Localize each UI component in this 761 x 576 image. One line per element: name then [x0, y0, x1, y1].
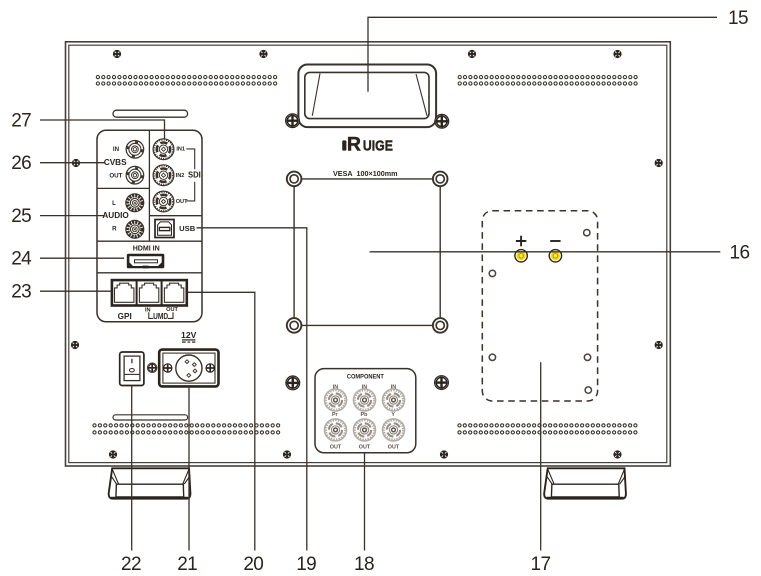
CVBS OUT RCA jack — [126, 166, 144, 184]
power switch rocker — [124, 356, 140, 381]
screw right-low — [655, 341, 663, 349]
component BNC IN 3 — [383, 389, 405, 411]
SDI IN2 BNC — [153, 165, 174, 186]
vent holes bottom-left — [93, 424, 280, 434]
vent holes top-left — [96, 76, 276, 86]
component BNC OUT 3 — [383, 419, 405, 441]
screw left-mid — [72, 159, 80, 167]
COMPONENT panel outline — [315, 369, 416, 453]
screw bottom Q — [440, 450, 448, 458]
screw bottom O — [109, 450, 117, 458]
handle recess left bevel — [312, 74, 320, 116]
svg-text:HDMI IN: HDMI IN — [133, 244, 160, 253]
svg-text:OUT: OUT — [176, 199, 188, 205]
callout 18 line — [364, 453, 366, 551]
XLR pin 1 — [185, 360, 189, 364]
12V XLR barrel — [176, 355, 202, 381]
AUDIO R RCA jack — [126, 220, 144, 238]
svg-text:R: R — [112, 226, 117, 233]
XLR pin 3 — [193, 369, 197, 373]
svg-text:USB: USB — [179, 224, 196, 233]
12V dc dashes — [182, 341, 186, 343]
callout 26 line — [40, 162, 105, 164]
RUIGE logo — [342, 134, 393, 156]
screw beside power switch — [147, 363, 157, 373]
svg-text:OUT: OUT — [330, 444, 342, 450]
VESA hole top-right — [433, 172, 448, 187]
XLR plate screw left — [164, 364, 172, 372]
svg-text:IN2: IN2 — [176, 173, 185, 179]
battery hole 4 — [584, 354, 590, 360]
12V underline — [182, 339, 195, 341]
svg-text:16: 16 — [730, 243, 750, 264]
vent holes top-right — [458, 76, 637, 86]
screw top C — [468, 50, 476, 58]
RJ45 divider 1 — [136, 281, 138, 305]
svg-text:OUT: OUT — [388, 444, 400, 450]
svg-text:Y: Y — [391, 412, 395, 418]
component BNC OUT 1 — [325, 419, 347, 441]
divider above HDMI — [98, 240, 202, 242]
battery hole 3 — [489, 354, 495, 360]
svg-text:IN: IN — [145, 307, 151, 313]
divider under CVBS — [98, 187, 150, 189]
UMD bracket — [149, 312, 173, 318]
negative terminal — [549, 250, 561, 262]
svg-text:15: 15 — [728, 8, 748, 29]
SDI OUT BNC — [153, 191, 174, 212]
screw top A — [113, 50, 121, 58]
power switch O mark — [130, 369, 135, 372]
screw left of COMPONENT — [286, 376, 300, 390]
XLR plate screw right — [206, 364, 214, 372]
svg-text:COMPONENT: COMPONENT — [347, 373, 384, 380]
svg-text:R: R — [347, 134, 361, 156]
svg-text:19: 19 — [296, 554, 316, 575]
callout 23 line — [40, 290, 112, 292]
SDI bracket — [186, 149, 194, 201]
VESA square top line — [302, 178, 433, 180]
power switch I mark — [131, 359, 133, 363]
callout 15 line — [368, 17, 717, 91]
RJ45 jack GPI — [115, 283, 134, 302]
power switch outer — [120, 352, 144, 386]
left foot — [109, 468, 191, 498]
svg-text:OUT: OUT — [359, 444, 371, 450]
svg-text:UMD: UMD — [153, 312, 168, 321]
svg-text:Pr: Pr — [332, 412, 339, 418]
RJ45 jack UMD IN — [139, 283, 158, 302]
svg-text:CVBS: CVBS — [104, 158, 127, 167]
battery mount dashed outline — [482, 211, 597, 401]
callout 20 line — [188, 292, 255, 550]
callout 25 line — [40, 215, 104, 217]
slot top-left — [113, 110, 188, 117]
callout 21 line — [188, 387, 190, 551]
svg-text:12V: 12V — [181, 330, 197, 340]
component BNC IN 1 — [325, 389, 347, 411]
svg-text:26: 26 — [11, 153, 31, 174]
screw right-mid — [655, 159, 663, 167]
connector panel outline — [97, 130, 202, 321]
divider CVBS/SDI vertical — [148, 131, 150, 241]
svg-text:Pb: Pb — [361, 412, 369, 418]
AUDIO L RCA jack — [126, 194, 144, 212]
battery hole 1 — [584, 230, 590, 236]
HDMI IN port — [127, 254, 165, 269]
screw bottom P — [283, 450, 291, 458]
SDI IN1 BNC — [153, 139, 174, 160]
CVBS IN RCA jack — [126, 141, 144, 159]
component BNC IN 2 — [354, 389, 376, 411]
battery hole 5 — [585, 387, 591, 393]
screw top B — [259, 50, 267, 58]
svg-text:21: 21 — [177, 554, 197, 575]
monitor rear panel inner edge — [69, 45, 667, 462]
handle screw left — [286, 114, 300, 128]
VESA square right line — [439, 186, 441, 318]
handle screw right — [435, 114, 449, 128]
divider under SDI — [149, 215, 201, 217]
svg-text:OUT: OUT — [109, 173, 122, 180]
svg-text:L: L — [112, 200, 116, 207]
VESA hole bottom-right — [433, 318, 448, 333]
divider above GPI row — [98, 272, 202, 274]
svg-text:IN1: IN1 — [176, 147, 185, 153]
vent holes bottom-right — [458, 424, 637, 434]
RJ45 divider 2 — [161, 281, 163, 305]
right foot — [544, 468, 626, 498]
VESA hole top-left — [287, 172, 302, 187]
plus label — [516, 236, 526, 246]
svg-text:17: 17 — [531, 554, 551, 575]
power switch rocker split — [125, 373, 140, 375]
callout 16 line — [370, 251, 721, 253]
USB port — [155, 220, 174, 238]
screw top D — [613, 50, 621, 58]
XLR pin 4 — [187, 373, 191, 377]
VESA hole bottom-left — [287, 318, 302, 333]
minus label — [550, 240, 560, 242]
callout 24 line — [40, 257, 124, 259]
svg-text:22: 22 — [121, 554, 141, 575]
VESA square bottom line — [302, 324, 433, 326]
monitor rear panel outer edge — [66, 42, 671, 466]
handle inner recess — [305, 72, 429, 118]
svg-text:VESA 100×100mm: VESA 100×100mm — [333, 169, 398, 178]
svg-text:23: 23 — [11, 282, 31, 303]
svg-text:UIGE: UIGE — [363, 139, 393, 155]
callout 27 line — [40, 120, 165, 139]
svg-text:18: 18 — [354, 554, 374, 575]
screw bottom R — [613, 450, 621, 458]
svg-text:24: 24 — [11, 249, 32, 270]
screw left-low — [71, 341, 79, 349]
battery hole 2 — [489, 270, 495, 276]
XLR pin 2 — [192, 363, 196, 367]
VESA square left line — [293, 186, 295, 318]
svg-text:IN: IN — [113, 146, 120, 153]
handle outer — [298, 65, 436, 128]
positive terminal — [515, 250, 527, 262]
svg-text:SDI: SDI — [188, 170, 201, 180]
callout 22 line — [131, 386, 133, 551]
svg-text:25: 25 — [11, 206, 31, 227]
svg-text:27: 27 — [11, 110, 31, 131]
handle recess right bevel — [416, 74, 427, 116]
RJ45 jack UMD OUT — [164, 283, 183, 302]
svg-text:20: 20 — [243, 554, 263, 575]
component BNC OUT 2 — [354, 419, 376, 441]
slot bottom-left — [113, 415, 188, 420]
svg-text:GPI: GPI — [118, 312, 132, 321]
svg-text:AUDIO: AUDIO — [102, 211, 129, 220]
12V XLR outer plate — [159, 350, 218, 387]
GPI/UMD RJ45 block — [112, 280, 187, 305]
12V XLR inner plate — [163, 353, 215, 383]
screw right of COMPONENT — [435, 376, 449, 390]
callout 19 line — [197, 228, 307, 551]
callout 17 line — [540, 362, 542, 550]
